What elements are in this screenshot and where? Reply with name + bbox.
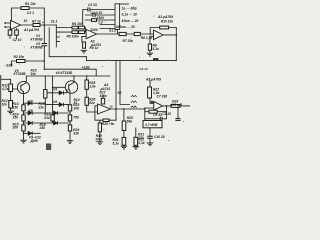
- svg-text:V7: V7: [29, 99, 33, 103]
- svg-text:С8 20: С8 20: [162, 112, 171, 116]
- svg-text:330: 330: [138, 136, 144, 140]
- svg-text:100к: 100к: [95, 138, 103, 142]
- svg-text:200: 200: [12, 126, 19, 130]
- svg-text:10: 10: [109, 105, 113, 109]
- svg-text:100: 100: [73, 107, 79, 111]
- svg-text:56к: 56к: [127, 119, 133, 123]
- svg-text:C9 33: C9 33: [153, 113, 162, 117]
- svg-text:100к: 100к: [100, 94, 108, 98]
- svg-text:КТ315В: КТ315В: [14, 72, 27, 76]
- svg-text:−12В: −12В: [5, 64, 14, 68]
- svg-text:150: 150: [13, 106, 19, 110]
- svg-text:100 мВ: 100 мВ: [171, 103, 183, 107]
- svg-text:3,3к: 3,3к: [138, 141, 145, 145]
- svg-text:10к: 10к: [31, 72, 37, 76]
- svg-text:КТ306В: КТ306В: [31, 38, 44, 42]
- svg-text:C1 1: C1 1: [27, 11, 34, 15]
- svg-text:V8: V8: [29, 109, 33, 113]
- svg-text:R6 1к: R6 1к: [90, 46, 99, 50]
- svg-text:С10 20: С10 20: [154, 135, 165, 139]
- svg-text:R5 100к: R5 100к: [67, 35, 80, 39]
- svg-text:С6 10: С6 10: [140, 67, 148, 71]
- svg-text:R7 20к: R7 20к: [123, 39, 134, 43]
- svg-text:150: 150: [13, 116, 19, 120]
- svg-text:1,6к: 1,6к: [89, 84, 96, 88]
- svg-text:S2: S2: [117, 91, 121, 95]
- svg-text:10: 10: [24, 19, 28, 23]
- svg-text:R4 1М: R4 1М: [72, 22, 82, 26]
- svg-text:R8 1,5к: R8 1,5к: [141, 36, 153, 40]
- svg-text:V5: V5: [53, 87, 57, 91]
- svg-text:750: 750: [73, 116, 79, 120]
- svg-text:C2 10: C2 10: [13, 38, 22, 42]
- svg-text:4,7к: 4,7к: [1, 87, 9, 91]
- svg-text:4: 4: [41, 21, 44, 25]
- svg-text:A5 µA709: A5 µA709: [145, 78, 161, 82]
- svg-text:22к: 22к: [38, 105, 45, 109]
- svg-text:5,1к: 5,1к: [153, 47, 160, 51]
- svg-text:R28 ÷3и: R28 ÷3и: [102, 122, 115, 126]
- svg-text:R2 10к: R2 10к: [14, 55, 25, 59]
- svg-text:C7 330: C7 330: [157, 95, 168, 99]
- svg-text:C4 0,33: C4 0,33: [91, 11, 103, 15]
- svg-text:1в — 0дБ: 1в — 0дБ: [122, 6, 138, 10]
- svg-text:+12В: +12В: [82, 66, 91, 70]
- svg-text:240: 240: [39, 126, 46, 130]
- svg-text:V6: V6: [53, 100, 57, 104]
- svg-text:Д9Ж: Д9Ж: [30, 139, 39, 143]
- svg-text:3300: 3300: [90, 28, 98, 32]
- svg-text:R7 1к: R7 1к: [32, 19, 41, 23]
- svg-text:0,1в — 10: 0,1в — 10: [122, 13, 138, 17]
- svg-text:330: 330: [73, 131, 79, 135]
- svg-text:КТ306В: КТ306В: [31, 46, 44, 50]
- svg-text:10мв — 20: 10мв — 20: [122, 19, 139, 23]
- svg-text:300мв — 30: 300мв — 30: [116, 25, 135, 29]
- svg-text:C3 33: C3 33: [88, 3, 97, 7]
- svg-text:5,1к: 5,1к: [113, 141, 120, 145]
- svg-text:82к: 82к: [89, 101, 95, 105]
- svg-text:1,0: 1,0: [98, 21, 103, 25]
- svg-text:4,7×50В: 4,7×50В: [144, 123, 158, 127]
- svg-text:S1.1: S1.1: [51, 20, 58, 24]
- svg-text:51к: 51к: [44, 116, 50, 120]
- svg-text:3300: 3300: [97, 16, 105, 20]
- svg-text:R1 10к: R1 10к: [25, 2, 36, 6]
- svg-text:A1 µA709: A1 µA709: [23, 28, 39, 32]
- svg-text:V4 КТ315Б: V4 КТ315Б: [56, 71, 74, 75]
- svg-text:R10 10к: R10 10к: [161, 19, 174, 23]
- svg-text:10к: 10к: [2, 102, 8, 106]
